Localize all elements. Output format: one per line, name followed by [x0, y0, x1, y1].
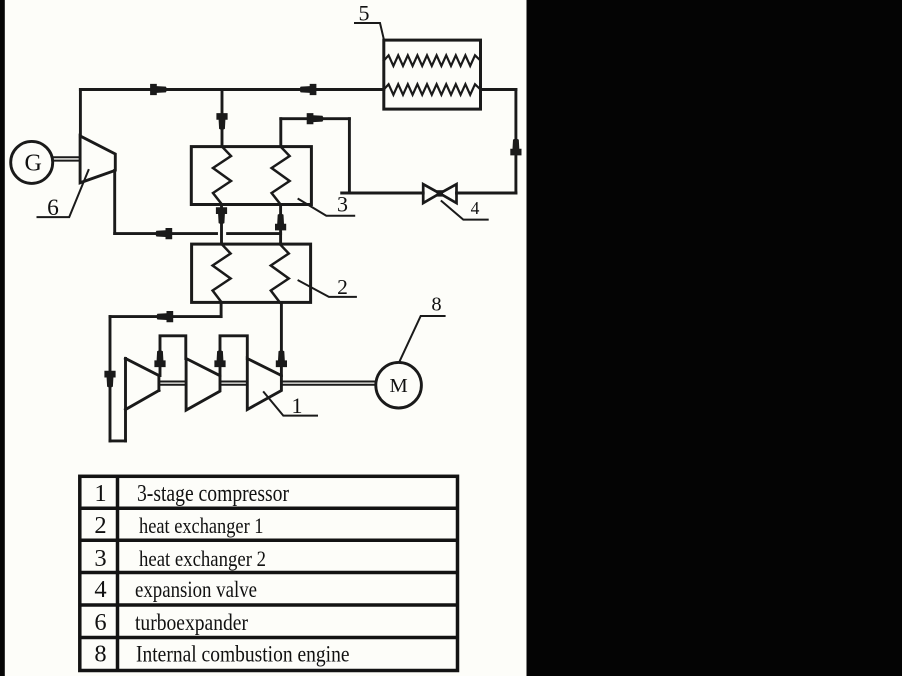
svg-text:2: 2 [94, 512, 106, 539]
compressor stage 3 [247, 359, 281, 410]
coil: HX1 right zigzag [271, 244, 289, 302]
wire: left coil link HX3 to HX1 [220, 205, 223, 245]
svg-text:1: 1 [292, 393, 303, 418]
expansion valve 4 bowtie [423, 184, 440, 203]
svg-text:3: 3 [94, 545, 106, 572]
svg-text:3-stage compressor: 3-stage compressor [137, 481, 289, 507]
motor M circle [376, 362, 422, 408]
wire: turbine feed line left part [115, 232, 217, 235]
wire: top header pipe y=89.5 [80, 88, 383, 91]
legend table [80, 476, 458, 670]
wire: stage3 discharge riser [280, 302, 283, 375]
svg-text:Internal combustion engine: Internal combustion engine [136, 642, 350, 667]
svg-text:4: 4 [94, 576, 106, 603]
flow arrow left on header [299, 84, 316, 95]
coil: cooler 5 lower zigzag [384, 84, 481, 95]
flow arrow up on right riser [510, 138, 521, 155]
svg-text:G: G [25, 151, 42, 177]
flow arrow up on interstage loop 2 [214, 350, 225, 367]
svg-text:8: 8 [431, 294, 441, 316]
wire: right riser to expansion valve line [514, 90, 517, 194]
wire: HX3 right coil top riser [279, 119, 282, 147]
leader line label 4 [442, 201, 488, 220]
coil: HX3 left zigzag [213, 147, 231, 205]
shaft: stage2-stage3 [220, 381, 247, 383]
leader line label 1 [264, 392, 317, 416]
leader line label 8 [400, 316, 445, 360]
wire: bypass loop horizontal [281, 117, 350, 120]
svg-text:turboexpander: turboexpander [135, 610, 248, 635]
wire: left drop into turboexpander inlet-top [79, 90, 82, 137]
leader line label 3 [299, 199, 355, 216]
svg-text:2: 2 [337, 275, 348, 299]
svg-text:heat exchanger 1: heat exchanger 1 [139, 513, 264, 538]
svg-text:8: 8 [94, 641, 106, 668]
turboexpander 6 body [80, 136, 115, 183]
flow arrow right on bypass loop [307, 113, 324, 124]
wire: suction bottom stub [110, 439, 126, 442]
right black panel [527, 0, 902, 676]
wire: HX1 left coil outlet drop [220, 302, 223, 316]
wire: drop from header to HX3 left coil [221, 90, 224, 147]
wire: suction return horizontal [110, 315, 221, 318]
compressor stage 2 [186, 359, 220, 411]
flow arrow left on turbine feed [155, 228, 172, 239]
valve center pinch [437, 190, 443, 196]
wire: bypass loop drop to valve line [348, 119, 351, 193]
interstage loop 1 [160, 336, 186, 376]
svg-text:4: 4 [471, 198, 480, 218]
flow arrow left on suction return [156, 311, 173, 322]
flow arrow down between HXs left [216, 207, 227, 224]
wire: right coil link HX1 to HX3 [279, 205, 282, 245]
shaft: stage3 to motor [281, 381, 375, 383]
coil: HX3 right zigzag [272, 147, 290, 205]
wire: suction downcomer [109, 317, 112, 441]
left black strip [0, 0, 5, 676]
svg-text:3: 3 [337, 192, 348, 217]
coil: HX1 left zigzag [213, 244, 231, 302]
svg-text:5: 5 [359, 1, 370, 26]
interstage loop 2 [220, 336, 247, 376]
wire: header right of cooler to corner [481, 88, 516, 91]
flow arrow down on suction downcomer [104, 371, 115, 388]
shaft: stage1-stage2 [159, 381, 186, 383]
svg-text:6: 6 [94, 609, 106, 636]
shaft: generator coupling [53, 156, 80, 158]
heat exchanger 2 box [192, 244, 311, 302]
generator G circle [11, 141, 53, 183]
svg-text:heat exchanger 2: heat exchanger 2 [139, 546, 266, 571]
heat exchanger 5 box [384, 40, 481, 109]
svg-text:expansion valve: expansion valve [135, 577, 257, 602]
leader line label 5 [355, 23, 384, 40]
leader line label 2 [299, 281, 356, 297]
svg-text:M: M [389, 375, 407, 397]
wire: turboexpander inlet drop [113, 170, 116, 233]
flow arrow right on header [150, 84, 167, 95]
flow arrow up on interstage loop 1 [154, 350, 165, 367]
compressor stage 1 [124, 359, 127, 441]
flow arrow up on discharge riser [276, 350, 287, 367]
leader line label 6 [38, 170, 89, 217]
wire: turbine feed line right part (after crossover gap) [228, 232, 281, 235]
flow arrow down into HX3 left coil [216, 113, 227, 130]
flow arrow up between HXs right [275, 213, 286, 230]
svg-text:1: 1 [94, 480, 106, 507]
wire: valve line right segment [457, 192, 516, 195]
wire: valve line left segment [342, 192, 424, 195]
svg-text:6: 6 [47, 195, 59, 221]
coil: cooler 5 upper zigzag [384, 55, 481, 66]
heat exchanger 3 box [191, 147, 311, 205]
